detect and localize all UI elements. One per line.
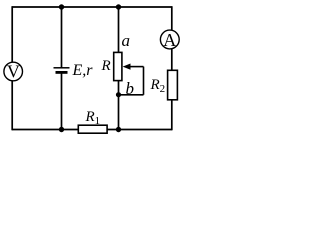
wire bottom border left (to R1) <box>12 129 78 131</box>
svg-text:V: V <box>7 62 20 82</box>
wire wiper return vertical <box>143 67 145 95</box>
ammeter A <box>160 30 179 50</box>
wire rheostat branch upper <box>118 7 120 53</box>
node b junction (wiper to b) <box>116 92 121 97</box>
rheostat wiper arrow <box>123 64 144 70</box>
voltmeter V <box>4 62 23 82</box>
svg-text:a: a <box>122 31 131 50</box>
wire left border lower (voltmeter to bottom) <box>11 81 13 131</box>
resistor R2 box <box>168 70 178 100</box>
node rheostat bottom junction <box>116 127 121 132</box>
battery E,r plates <box>54 68 70 73</box>
rheostat R box <box>114 52 122 80</box>
wire top border <box>12 6 172 8</box>
wire battery branch lower <box>61 73 63 130</box>
wire right border ammeter to R2 <box>171 49 173 71</box>
wire battery branch upper <box>61 7 63 68</box>
wire wiper return horizontal to node b <box>119 94 144 96</box>
wire rheostat branch lower <box>118 81 120 130</box>
svg-text:A: A <box>163 30 176 50</box>
svg-text:R: R <box>101 58 111 74</box>
resistor R1 box <box>78 125 107 133</box>
node battery bottom junction <box>59 127 64 132</box>
wire bottom border right (R1 to right corner) <box>107 129 172 131</box>
node battery top junction <box>59 4 64 9</box>
wire left border upper (to voltmeter) <box>11 6 13 62</box>
node rheostat top junction <box>116 4 121 9</box>
wire right border upper (to ammeter) <box>171 6 173 30</box>
svg-text:E,r: E,r <box>72 62 94 79</box>
wire right border R2 to bottom corner <box>171 100 173 131</box>
